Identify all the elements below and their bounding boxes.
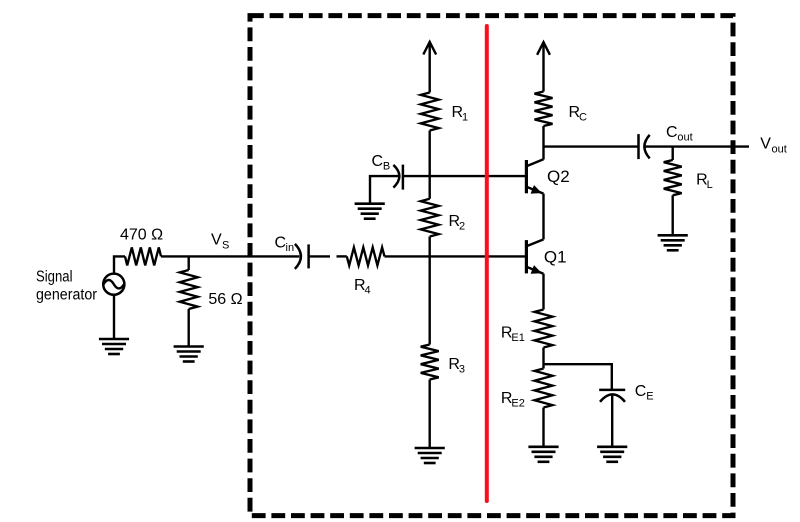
wire emitter node to C_E	[544, 364, 612, 390]
ground under 56 ohm	[174, 347, 204, 362]
svg-text:Q1: Q1	[544, 248, 567, 267]
capacitor C_B curved plate	[393, 165, 399, 188]
svg-text:out: out	[677, 132, 692, 144]
signal generator source circle	[103, 274, 124, 295]
ground under R3	[415, 448, 445, 463]
resistor R2	[421, 199, 439, 237]
wire Q1 emitter to RE1	[542, 274, 544, 310]
svg-text:E2: E2	[511, 398, 524, 410]
svg-text:E: E	[646, 390, 653, 402]
svg-text:56 Ω: 56 Ω	[208, 291, 242, 308]
wire 56 ohm to ground	[187, 309, 189, 347]
resistor R1	[421, 93, 439, 131]
resistor RE2	[535, 369, 553, 408]
ground under generator	[99, 339, 129, 354]
wire arrow to RC	[542, 42, 544, 91]
wire R2 to R3	[429, 237, 431, 345]
svg-text:3: 3	[459, 363, 465, 375]
svg-text:B: B	[383, 161, 390, 173]
wire C_B to Q2 base	[403, 175, 527, 177]
capacitor C_E straight plate	[599, 389, 625, 392]
wire R4 to Q1 base	[385, 255, 527, 257]
capacitor C_E curved plate	[600, 394, 625, 401]
svg-text:out: out	[772, 143, 787, 155]
transistor Q2 emitter diagonal with arrow	[526, 187, 543, 194]
capacitor C_out curved plate	[644, 135, 649, 159]
svg-text:V: V	[211, 231, 222, 248]
wire RL to ground	[672, 195, 674, 235]
resistor 56 ohm	[180, 270, 198, 309]
ground under C_E	[597, 447, 627, 462]
capacitor C_in curved plate	[295, 244, 301, 269]
resistor RE1	[535, 310, 553, 348]
transistor Q1 base bar	[525, 240, 528, 273]
svg-text:4: 4	[365, 284, 371, 296]
transistor Q2 base bar	[525, 160, 528, 193]
resistor RL	[664, 160, 682, 195]
wire C_E to ground	[611, 395, 613, 447]
svg-text:C: C	[275, 234, 287, 251]
capacitor C_in straight plate	[307, 244, 310, 268]
capacitor C_out straight plate	[637, 134, 640, 159]
wire arrow to R1	[429, 42, 431, 93]
wire R3 to ground	[429, 380, 431, 449]
wire junction to RL	[672, 147, 674, 160]
wire RC to Q2 collector	[542, 126, 544, 160]
wire junction VS to 56 ohm	[187, 256, 189, 270]
red divider line	[485, 26, 489, 501]
wire RE1 to RE2	[542, 348, 544, 369]
ground under RE2	[528, 447, 558, 462]
svg-text:V: V	[760, 135, 771, 152]
wire C_B left leg	[370, 176, 399, 204]
ground under C_B	[355, 204, 385, 219]
svg-text:L: L	[707, 179, 713, 191]
svg-text:C: C	[579, 112, 587, 124]
svg-text:generator: generator	[36, 287, 97, 304]
svg-text:E1: E1	[511, 332, 524, 344]
ground under RL	[658, 235, 688, 250]
power arrow rail 2	[537, 42, 550, 55]
svg-text:C: C	[372, 153, 384, 170]
svg-text:S: S	[222, 240, 229, 252]
svg-text:Q2: Q2	[547, 167, 570, 186]
capacitor C_B straight plate	[402, 165, 405, 190]
transistor Q1 collector diagonal	[526, 239, 543, 246]
wire 470 ohm to C_in	[161, 255, 299, 257]
wire C_in to R4	[309, 255, 330, 257]
wire Q2 emitter to Q1 collector	[542, 194, 544, 240]
svg-text:C: C	[666, 124, 678, 141]
svg-text:2: 2	[459, 221, 465, 233]
wire RE2 to ground	[542, 408, 544, 447]
amplifier boundary dashed box	[250, 16, 733, 516]
resistor R3	[421, 345, 439, 380]
svg-text:in: in	[286, 242, 295, 254]
resistor RC	[535, 92, 553, 127]
svg-text:C: C	[635, 383, 647, 400]
wire R1 to R2	[429, 131, 431, 199]
power arrow rail 1	[423, 42, 436, 55]
svg-text:1: 1	[462, 112, 468, 124]
wire generator to ground	[113, 295, 115, 340]
wire Q2 collector to C_out	[544, 145, 639, 147]
wire C_out to V_out	[645, 145, 749, 147]
transistor Q1 emitter diagonal with arrow	[526, 267, 543, 274]
svg-text:Signal: Signal	[36, 269, 73, 286]
resistor R4	[347, 247, 385, 265]
transistor Q2 collector diagonal	[526, 159, 543, 166]
resistor 470 ohm	[125, 247, 161, 265]
svg-text:470 Ω: 470 Ω	[120, 227, 163, 244]
wire input from generator corner to 470 ohm	[114, 256, 125, 274]
